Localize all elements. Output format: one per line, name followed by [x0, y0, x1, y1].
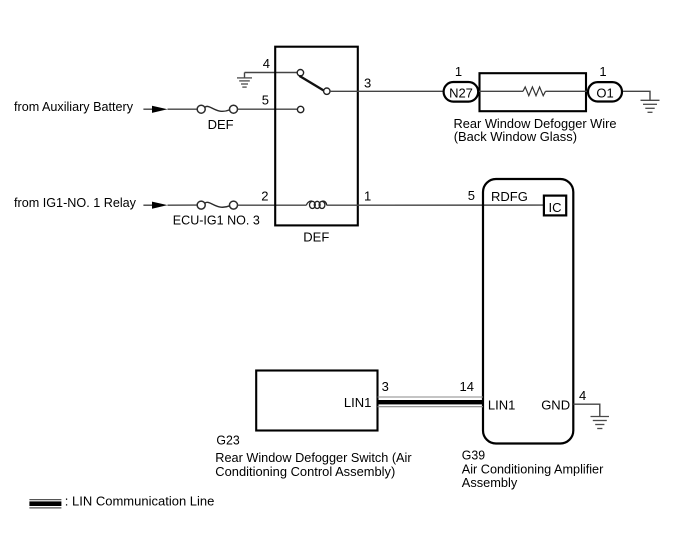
svg-text:3: 3 — [382, 379, 389, 394]
fuse DEF — [197, 105, 237, 113]
wire N27 to resistor — [479, 90, 523, 92]
svg-text:(Back Window Glass): (Back Window Glass) — [454, 129, 577, 144]
svg-text:LIN1: LIN1 — [344, 395, 371, 410]
svg-text:1: 1 — [455, 64, 462, 79]
svg-text:G23: G23 — [216, 433, 239, 448]
wire O1 to ground — [623, 91, 650, 100]
LIN communication line G23 to amplifier — [378, 397, 484, 407]
wire arrow from IG1-NO. 1 Relay — [143, 202, 167, 209]
relay DEF box — [275, 47, 358, 226]
svg-text:GND: GND — [541, 398, 570, 413]
svg-text:5: 5 — [262, 92, 269, 107]
air conditioning amplifier box — [483, 179, 573, 444]
relay common contact pin 3 — [324, 88, 330, 94]
resistor defogger element — [523, 87, 545, 96]
wire fuse to relay pin 2 and coil — [238, 204, 307, 206]
IC box — [544, 196, 566, 216]
svg-text:Assembly: Assembly — [462, 475, 518, 490]
svg-text:: LIN Communication Line: : LIN Communication Line — [65, 493, 215, 508]
legend LIN communication line swatch — [29, 500, 61, 508]
ground symbol relay pin 4 — [237, 73, 252, 88]
wire IG1 feed to fuse — [168, 204, 197, 206]
switch G23 box — [256, 371, 377, 431]
svg-text:from Auxiliary Battery: from Auxiliary Battery — [14, 99, 133, 114]
svg-text:from IG1-NO. 1 Relay: from IG1-NO. 1 Relay — [14, 195, 136, 210]
connector O1 — [588, 82, 622, 101]
svg-text:ECU-IG1 NO. 3: ECU-IG1 NO. 3 — [173, 212, 260, 227]
svg-text:1: 1 — [599, 64, 606, 79]
svg-text:IC: IC — [549, 200, 562, 215]
wire arrow from Auxiliary Battery — [143, 106, 167, 113]
ground symbol O1 — [641, 100, 660, 112]
wire coil to relay pin 1 to amplifier pin 5 — [327, 204, 544, 206]
relay coil — [307, 201, 327, 208]
relay contact pin 4 — [297, 70, 303, 76]
svg-text:N27: N27 — [449, 86, 473, 101]
rear window defogger wire box — [480, 73, 587, 111]
svg-text:DEF: DEF — [303, 229, 329, 244]
ground symbol amplifier — [591, 417, 610, 429]
wire amplifier GND to ground — [573, 404, 600, 416]
wire battery feed to fuse — [168, 108, 197, 110]
svg-text:Rear Window Defogger Switch (A: Rear Window Defogger Switch (Air — [215, 450, 412, 465]
svg-text:1: 1 — [364, 188, 371, 203]
fuse ECU-IG1 NO. 3 — [197, 201, 237, 209]
svg-text:5: 5 — [468, 188, 475, 203]
svg-text:DEF: DEF — [208, 117, 234, 132]
svg-text:Conditioning Control Assembly): Conditioning Control Assembly) — [215, 464, 395, 479]
svg-text:2: 2 — [261, 188, 268, 203]
svg-text:4: 4 — [263, 56, 270, 71]
relay contact pin 5 — [297, 106, 303, 112]
svg-text:14: 14 — [460, 379, 474, 394]
svg-text:RDFG: RDFG — [491, 189, 528, 204]
wire relay pin 3 to N27 — [330, 90, 443, 92]
svg-text:4: 4 — [579, 388, 586, 403]
connector N27 — [444, 82, 479, 102]
wire fuse to relay pin 5 — [238, 108, 298, 110]
svg-text:3: 3 — [364, 76, 371, 91]
relay switch arm — [299, 76, 324, 91]
svg-text:LIN1: LIN1 — [488, 398, 515, 413]
svg-text:G39: G39 — [462, 448, 485, 463]
svg-text:O1: O1 — [596, 86, 613, 101]
wire resistor to O1 — [546, 90, 588, 92]
wire ground to relay pin 4 — [245, 72, 298, 74]
